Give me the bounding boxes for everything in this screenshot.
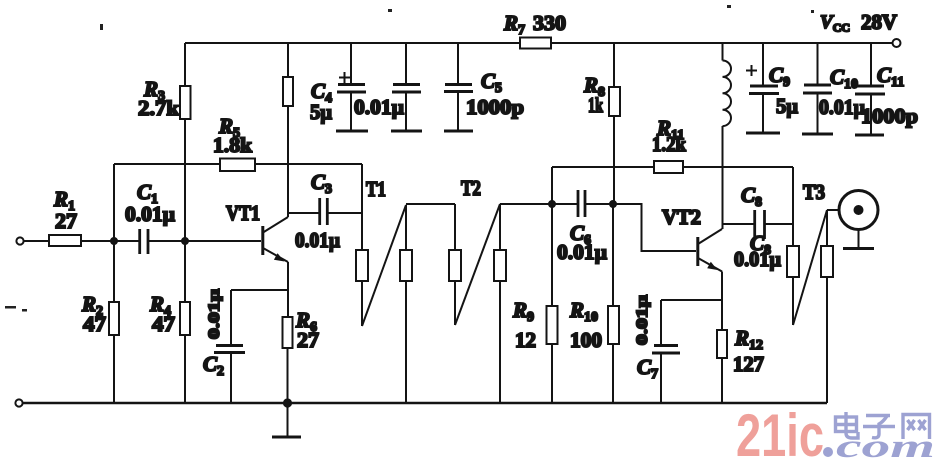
- transformer T3: [787, 167, 833, 403]
- capacitor C1 0.01u: [125, 180, 175, 254]
- svg-text:R12: R12: [734, 326, 763, 353]
- svg-text:C5: C5: [481, 69, 502, 96]
- svg-text:330: 330: [533, 11, 566, 35]
- svg-text:27: 27: [55, 209, 77, 233]
- wire base jog to VT2: [613, 204, 696, 251]
- hanzi zi: [866, 414, 890, 417]
- svg-text:5µ: 5µ: [310, 100, 332, 124]
- wire R12 to ground rail: [721, 358, 723, 403]
- node T2/R9/C6 junction dot: [549, 201, 555, 207]
- svg-text:0.01µ: 0.01µ: [557, 240, 607, 264]
- svg-text:47: 47: [152, 312, 175, 336]
- wire R9 to ground rail: [551, 344, 553, 403]
- node C6/R8/R10 junction dot: [610, 201, 616, 207]
- transformer T2: [449, 176, 506, 403]
- wire C3 to T1: [327, 212, 362, 214]
- svg-text:0.01µ: 0.01µ: [819, 95, 865, 119]
- wire R3 column upper: [184, 43, 186, 86]
- capacitor 0.01u (unnamed, top mid): [354, 43, 422, 131]
- terminal Vcc 28V: [820, 10, 901, 47]
- terminal input (bottom): [15, 399, 22, 406]
- svg-text:R9: R9: [512, 298, 534, 325]
- wire R8 column lower: [613, 116, 615, 204]
- svg-text:0.01µ: 0.01µ: [634, 295, 651, 345]
- capacitor C5 1000p: [444, 43, 524, 131]
- wire R2 column upper: [113, 241, 115, 302]
- svg-text:R10: R10: [569, 298, 598, 325]
- resistor R8 1k: [583, 73, 620, 117]
- wire T1 to T2: [406, 203, 455, 205]
- svg-text:12: 12: [515, 328, 536, 352]
- svg-text:VCC: VCC: [820, 12, 850, 35]
- svg-text:100: 100: [570, 328, 602, 352]
- resistor R1 27: [49, 187, 81, 246]
- wire R11 node vertical: [551, 167, 553, 204]
- wire Vcc top rail left segment: [185, 42, 520, 44]
- resistor R4 47: [149, 292, 190, 336]
- capacitor C7 0.01u: [634, 295, 680, 403]
- resistor R6 27: [283, 308, 320, 352]
- wire R9 upper lead: [551, 204, 553, 306]
- resistor R2 47: [81, 292, 119, 336]
- svg-text:28V: 28V: [861, 10, 897, 34]
- svg-text:C10: C10: [830, 65, 858, 92]
- wire VT1 emitter vertical: [287, 262, 289, 317]
- wire VT1 collector column lower: [287, 106, 289, 217]
- capacitor C11 1000p: [855, 43, 918, 135]
- capacitor C3 0.01u: [295, 170, 340, 252]
- wire T2 to R9 node: [500, 203, 552, 205]
- wire VT2 collector to C8: [723, 223, 755, 225]
- svg-text:C7: C7: [637, 355, 658, 382]
- inductor L (collector choke): [723, 43, 732, 229]
- capacitor C10 0.01u: [802, 43, 865, 134]
- svg-text:VT2: VT2: [662, 205, 701, 229]
- ground symbol (below rail): [272, 403, 301, 437]
- svg-text:127: 127: [733, 352, 764, 376]
- svg-text:47: 47: [83, 312, 106, 336]
- wire R1 to C1: [81, 240, 139, 242]
- wire ground bottom rail: [23, 402, 827, 405]
- transformer T1: [356, 164, 412, 403]
- wire VT1 collector column upper: [287, 43, 289, 77]
- capacitor C4 5u: [310, 43, 368, 131]
- svg-text:1000p: 1000p: [861, 104, 918, 128]
- hanzi dian: [846, 412, 858, 438]
- svg-text:1k: 1k: [588, 93, 603, 117]
- capacitor C8 0.01u: [734, 183, 781, 271]
- transistor VT2: [662, 205, 722, 272]
- svg-text:5µ: 5µ: [776, 94, 798, 118]
- wire R8 column upper: [613, 43, 615, 87]
- svg-text:C9: C9: [769, 63, 790, 90]
- capacitor C2 0.01u (emitter bypass): [203, 289, 245, 403]
- wire R6 to ground rail: [287, 348, 289, 403]
- wire C8 to T3: [765, 223, 794, 225]
- svg-text:21ic: 21ic: [736, 402, 824, 459]
- wire feedback line right segment to T1: [255, 163, 362, 165]
- svg-text:1.8k: 1.8k: [213, 133, 252, 157]
- wire T3 to output connector: [827, 209, 839, 211]
- node R6-rail junction dot: [284, 399, 291, 406]
- resistor R12 127: [717, 326, 764, 376]
- capacitor C6 0.01u: [552, 190, 613, 264]
- wire R11 left lead: [552, 166, 654, 168]
- svg-text:0.01µ: 0.01µ: [125, 202, 175, 226]
- resistor collector (unlabeled): [283, 77, 293, 106]
- node base (junction dot): [182, 238, 188, 244]
- wire R4 column upper: [184, 241, 186, 302]
- svg-text:T1: T1: [366, 177, 386, 201]
- resistor R7 330: [503, 11, 566, 49]
- transistor VT1: [226, 201, 288, 262]
- watermark 21ic.com logo: [736, 402, 935, 459]
- svg-text:C3: C3: [311, 170, 332, 197]
- wire C1 to VT1 base: [148, 240, 261, 242]
- svg-text:1.2k: 1.2k: [652, 132, 686, 156]
- svg-text:1000p: 1000p: [466, 95, 524, 119]
- svg-text:T2: T2: [461, 176, 481, 200]
- svg-text:T3: T3: [803, 180, 825, 204]
- wire input node up to feedback line: [113, 164, 115, 241]
- wire input to R1: [24, 240, 49, 242]
- wire collector to C3: [288, 212, 319, 214]
- wire feedback line left segment: [114, 163, 220, 165]
- terminal input (top): [16, 237, 23, 244]
- wire R2 to ground rail: [113, 335, 115, 403]
- svg-text:0.01µ: 0.01µ: [734, 247, 781, 271]
- wire R11 right lead to T3 top: [683, 166, 793, 168]
- stray scan specks: [5, 5, 814, 312]
- wire R3 column lower to base node: [184, 119, 186, 241]
- svg-text:R7: R7: [503, 11, 525, 38]
- svg-text:C11: C11: [877, 63, 904, 90]
- resistor R9 12: [512, 298, 558, 352]
- svg-text:0.01µ: 0.01µ: [354, 95, 404, 119]
- capacitor C9 5u: [746, 43, 798, 133]
- svg-text:com: com: [836, 429, 935, 459]
- resistor R11 1.2k: [652, 116, 686, 173]
- wire emitter to C7 branch: [661, 299, 722, 301]
- wire Vcc top rail right segment: [551, 42, 893, 44]
- wire emitter to C2 branch: [231, 289, 288, 291]
- svg-text:0.01µ: 0.01µ: [206, 289, 223, 339]
- svg-text:27: 27: [297, 328, 319, 352]
- wire R4 to ground rail: [184, 335, 186, 403]
- wire VT2 emitter vertical: [721, 272, 723, 331]
- resistor R3 2.7k: [138, 77, 191, 120]
- svg-text:C8: C8: [741, 183, 762, 210]
- svg-text:VT1: VT1: [226, 201, 260, 225]
- svg-text:C2: C2: [203, 352, 224, 379]
- wire R10 to ground rail: [612, 344, 614, 403]
- connector output coax: [839, 191, 878, 249]
- hanzi wang: [903, 415, 930, 440]
- resistor R10 100: [569, 204, 619, 352]
- node input (junction dot): [111, 238, 117, 244]
- svg-text:2.7k: 2.7k: [138, 96, 179, 120]
- svg-text:0.01µ: 0.01µ: [295, 228, 340, 252]
- resistor R5 1.8k: [213, 114, 255, 171]
